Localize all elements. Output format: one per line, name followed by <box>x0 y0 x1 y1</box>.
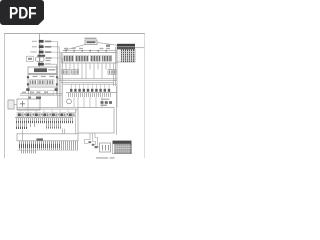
wire: diagonal Y1 to connector J1 <box>97 42 117 45</box>
transformer T1 cap <box>38 55 46 57</box>
keyboard pin bodies <box>19 144 44 148</box>
wire: data bus lines <box>58 79 118 84</box>
capacitor bank C2 <box>38 79 46 85</box>
connector J3 <box>100 143 111 152</box>
IC outlines <box>64 55 112 61</box>
connector J1 second band <box>117 47 135 49</box>
net label e <box>106 48 110 49</box>
label right of F2 <box>45 46 52 48</box>
P1 tail feet <box>16 127 27 129</box>
capacitor bank C3 <box>46 79 54 85</box>
wire: CRT board inner right <box>116 86 118 135</box>
pad above J2 right <box>36 97 41 99</box>
wire: clock distribution bus <box>63 50 117 52</box>
wire: relay to box <box>14 103 17 105</box>
driver row RN5 <box>43 113 50 117</box>
CRT board outline <box>78 108 114 134</box>
wire: left rail down from filter box <box>28 87 30 95</box>
svg-text:PDF: PDF <box>9 5 37 23</box>
sheet right border <box>143 34 145 158</box>
regulator box U10 outline <box>28 67 57 74</box>
wire: power rails <box>20 94 62 96</box>
wire: chain taps to trunks <box>51 41 62 58</box>
wire: board drop left <box>63 129 65 134</box>
P1 tail pins <box>16 123 61 127</box>
logic board box outline <box>62 53 117 63</box>
speaker LS1 <box>67 99 72 104</box>
label right of T1 <box>46 57 52 59</box>
driver row RN3 <box>26 113 33 117</box>
vertical trunk wires right <box>114 46 118 108</box>
label left of F2 <box>32 46 37 47</box>
keyboard box outline <box>17 134 78 141</box>
net label a <box>64 48 68 49</box>
line filter FL1 box <box>27 56 34 61</box>
label right of T1 lower <box>46 60 51 61</box>
sheet left border <box>3 34 5 158</box>
node dot right <box>55 88 58 91</box>
P1 pin feet <box>16 121 73 123</box>
fuse F2 <box>39 45 44 48</box>
vertical trunk wires left <box>58 41 63 107</box>
net labels over rails <box>22 92 48 93</box>
link pads between rows <box>24 114 68 116</box>
terminal table TB1 header <box>113 141 132 144</box>
relay K1 <box>8 100 14 109</box>
IC U4 pins <box>103 56 111 61</box>
fuse F1 <box>39 40 44 43</box>
wire: right rail down from filter box <box>56 87 58 95</box>
label above Y1 <box>85 38 97 39</box>
termination R9 <box>106 45 110 47</box>
wire tick t2 <box>39 49 43 51</box>
keyboard connector pins <box>19 141 78 150</box>
connector J1 body <box>117 49 135 62</box>
edge connector P1 pins <box>16 118 73 122</box>
keyboard label <box>37 138 44 140</box>
buffer U7 <box>108 70 116 75</box>
transformer T1 windings <box>35 57 40 62</box>
wire: main vertical feed from top border <box>39 34 41 67</box>
resistor row RN1 <box>70 89 110 92</box>
label right of U10 <box>48 69 55 71</box>
net label d <box>100 48 104 49</box>
keyboard pin tails <box>21 150 36 153</box>
rectifier D1 <box>38 63 44 66</box>
driver row RN7 <box>60 113 67 117</box>
caption text <box>96 157 108 158</box>
wire: drops from logic box <box>66 63 110 79</box>
trimmer cluster labels <box>101 99 110 100</box>
connector J1 header band <box>117 44 135 47</box>
label right of D1 <box>45 63 51 64</box>
wire: mid bus <box>66 92 117 94</box>
wire: double bus to middle connector <box>17 107 78 109</box>
label left of S1 <box>31 51 37 52</box>
oscillator Y1 box <box>85 40 97 45</box>
sheet top border <box>4 33 145 35</box>
bank labels <box>33 76 55 77</box>
connector box J2 <box>17 99 40 110</box>
driver row RN2 <box>17 113 24 117</box>
capacitor bank C1 <box>30 79 38 85</box>
filter box outline <box>28 75 57 87</box>
buffer U6 <box>72 70 79 75</box>
IC U2 pins <box>76 56 87 61</box>
Y1 value text <box>87 41 96 43</box>
net label c <box>79 48 83 49</box>
label right of F1 <box>45 41 52 43</box>
wire: bus riser at box edge <box>75 109 77 134</box>
label right of S1 <box>45 51 52 53</box>
label left of F1 <box>32 41 37 42</box>
wire: feed into keyboard box <box>22 129 24 141</box>
wire: diagonal Y1 to left bus <box>63 45 85 51</box>
driver row RN4 <box>34 113 41 117</box>
box edge terminals <box>27 76 58 85</box>
wire: comb to bottom drops <box>74 97 102 107</box>
wire: connector bus <box>15 117 73 119</box>
wire: D1 to right rail <box>44 64 57 74</box>
jumper cross in J2 <box>20 101 25 107</box>
wire: keyboard lower rail <box>17 149 78 151</box>
regulator U10 body <box>34 68 47 72</box>
node cluster dots <box>89 141 98 148</box>
wire tick t1 <box>39 43 43 45</box>
PDF badge <box>0 0 44 25</box>
trimmer cluster near box corner <box>101 101 113 104</box>
terminal table TB1 body <box>113 144 132 154</box>
comb under mid bus <box>68 93 111 97</box>
IC U3 pins <box>91 56 99 61</box>
buffer U5 <box>62 70 70 75</box>
switch S1 <box>39 51 44 54</box>
node dot left <box>26 88 29 91</box>
net label b <box>72 48 76 49</box>
driver row RN8 <box>68 113 75 117</box>
transistor leads up <box>71 84 109 89</box>
bus junction dots <box>65 50 107 52</box>
wire: J1 to right border <box>135 47 144 49</box>
varistor box row <box>31 90 54 94</box>
pad above J2 left <box>28 97 31 99</box>
driver row RN6 <box>51 113 58 117</box>
IC U1 pins <box>65 56 73 61</box>
wire: drops to driver rows <box>20 109 76 113</box>
wire: video out staircase <box>85 133 100 147</box>
